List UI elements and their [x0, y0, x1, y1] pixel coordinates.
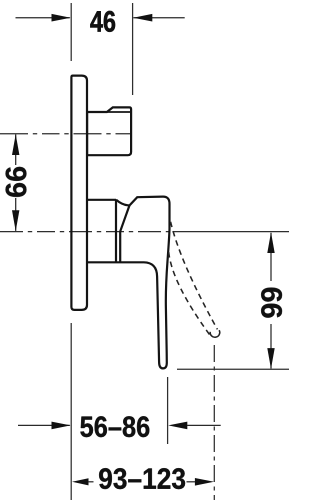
extension line wall plane bottom (56-86 / 93-123 dims) — [70, 323, 72, 500]
dim label 99 — [261, 288, 282, 318]
extension line solid lever tip (56-86 dim) — [167, 377, 169, 444]
dim 93-123 line left — [88, 481, 94, 483]
wall plate (escutcheon plate side view) — [71, 76, 87, 310]
dim 56-86 arrow left — [52, 422, 71, 430]
escutcheon cylinder (valve body trim) — [88, 199, 117, 262]
dim label 46 — [90, 11, 115, 32]
dim 56-86 line left — [18, 424, 70, 426]
top knob (volume/diverter handle) — [87, 107, 131, 155]
dashed lever alternate position: upper edge — [171, 222, 218, 330]
dim 66 arrow up — [12, 134, 19, 155]
handle base crease — [120, 206, 129, 262]
centerline top knob axis — [0, 133, 131, 135]
dim 99 arrow up — [267, 232, 274, 253]
dim 46 arrow left — [52, 14, 71, 22]
dim 99 arrow down — [267, 348, 274, 369]
centerline dashed lever tip (93-123 dim) — [213, 345, 215, 500]
dim 93-123 arrow left — [72, 478, 89, 485]
centerline handle axis — [0, 231, 169, 233]
dashed lever alternate position: lower edge — [169, 252, 210, 334]
dim 66 arrow down — [12, 210, 19, 231]
dim 46 arrow right — [133, 14, 152, 22]
dim 93-123 line right — [187, 481, 197, 483]
knob lip line — [108, 111, 131, 113]
dim 46 line right — [133, 17, 184, 19]
extension line knob front (46 dim) — [132, 3, 134, 95]
dim 56-86 arrow right — [168, 422, 187, 430]
dim 56-86 line right — [187, 424, 221, 426]
dashed lever tip arc — [210, 330, 220, 337]
dim 66 line — [15, 134, 17, 165]
dim label 93-123 — [99, 468, 185, 489]
lever handle head and lever (solid position) — [88, 197, 170, 369]
dim 93-123 arrow right — [195, 478, 214, 486]
dim label 56-86 — [80, 416, 149, 437]
dim 99 line — [270, 233, 272, 281]
extension line wall plane top (46 dim) — [70, 3, 72, 61]
extension line right of handle axis (to 99 dim) — [173, 231, 290, 233]
dim label 66 — [6, 167, 27, 197]
extension line lever tip bottom (to 99 dim) — [177, 368, 289, 370]
dim 46 line left — [16, 17, 70, 19]
